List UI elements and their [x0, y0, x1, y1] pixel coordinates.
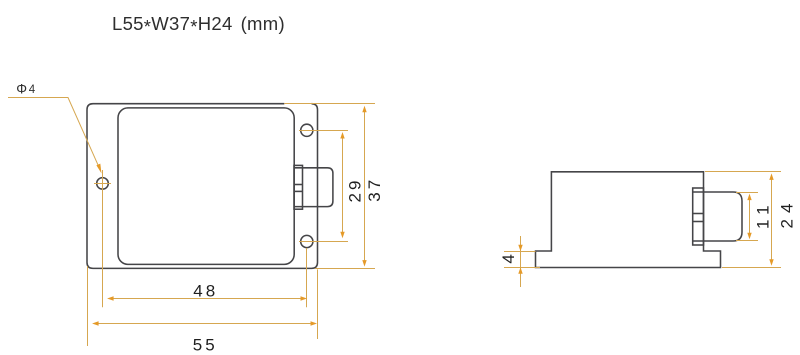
- side view connector body: [693, 192, 742, 241]
- dimension 55 line: [92, 321, 317, 325]
- svg-text:29: 29: [345, 178, 364, 203]
- dimension 29 text: [345, 178, 364, 203]
- top view right hole upper: [301, 124, 313, 136]
- svg-text:48: 48: [193, 282, 218, 301]
- svg-text:24: 24: [777, 198, 796, 229]
- side view body outline: [536, 172, 721, 268]
- dimension 55 text: [193, 336, 218, 355]
- dimension 29 line: [340, 132, 344, 238]
- dimension 24 text: [777, 198, 796, 229]
- dimension 4 text: [499, 254, 518, 263]
- leader Phi4 line and arrow: [8, 98, 102, 174]
- dimension 24 extension lines: [705, 172, 781, 268]
- top view outer flange outline (top edge gap where 37 extension line overlays): [87, 104, 318, 269]
- dimension 37 text: [365, 177, 384, 202]
- top view connector body: [294, 168, 333, 207]
- dimension 55 extension lines: [88, 266, 318, 346]
- dimension 4 extension lines: [504, 252, 540, 268]
- dimension 37 line: [362, 106, 366, 267]
- svg-text:4: 4: [499, 254, 518, 263]
- svg-text:L55*W37*H24 (mm): L55*W37*H24 (mm): [112, 13, 285, 37]
- top view inner lid outline: [118, 108, 294, 265]
- extension line through lower right hole: [299, 242, 348, 308]
- dimension 24 line: [769, 173, 773, 265]
- dimension 11 extension lines: [736, 193, 758, 241]
- title L55*W37*H24 (mm): [112, 13, 285, 37]
- svg-text:Φ: Φ: [16, 81, 27, 96]
- top view left mounting hole: [97, 178, 109, 190]
- dimension 48 text: [193, 282, 218, 301]
- svg-text:11: 11: [753, 199, 772, 229]
- dimension 37 extension lines: [284, 104, 375, 269]
- left hole crosshair: [94, 170, 111, 307]
- leader Phi4 label: [16, 81, 36, 96]
- dimension 11 text: [753, 199, 772, 229]
- svg-text:37: 37: [365, 177, 384, 202]
- extension line through upper right hole: [299, 130, 348, 132]
- top view right hole lower: [301, 235, 313, 247]
- dimension 11 line: [747, 194, 751, 240]
- svg-text:55: 55: [193, 336, 218, 355]
- top view connector flange: [294, 165, 303, 209]
- side view connector flange: [693, 188, 704, 245]
- dimension 48 line: [107, 296, 307, 300]
- svg-text:4: 4: [29, 84, 36, 96]
- dimension 4 line: [518, 236, 522, 287]
